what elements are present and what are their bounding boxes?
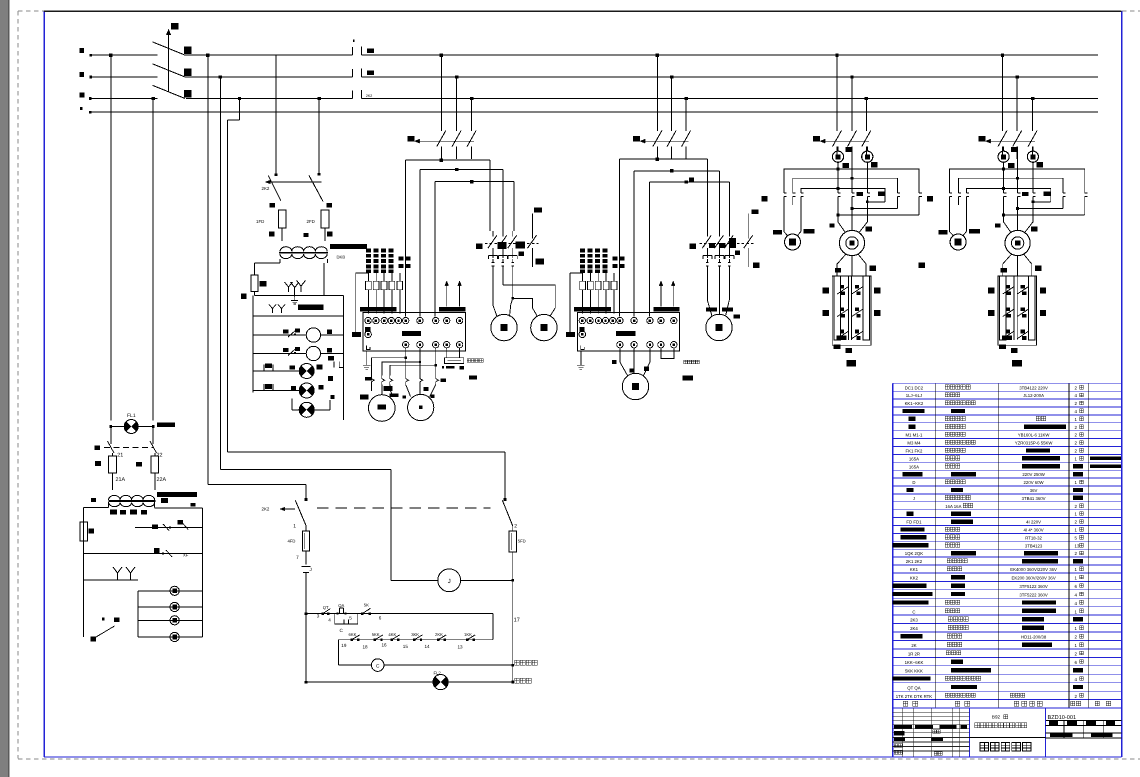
- svg-text:2K3: 2K3: [910, 618, 918, 623]
- meter box row1: [253, 305, 343, 317]
- contact QT: [322, 605, 332, 623]
- switch 21-22 dashed link: [95, 427, 163, 459]
- svg-text:13: 13: [458, 645, 464, 650]
- svg-text:1FD: 1FD: [256, 219, 264, 224]
- svg-text:QT: QT: [323, 605, 329, 610]
- fuse 22A: [136, 453, 166, 490]
- lamp FL1: [109, 413, 175, 434]
- svg-text:5KK: 5KK: [372, 632, 380, 637]
- switch 3K1: [262, 500, 307, 529]
- c3 hoist contactor QC: [476, 208, 544, 285]
- svg-text:2KK: 2KK: [435, 632, 443, 637]
- svg-text:1QK 2QK: 1QK 2QK: [905, 551, 924, 556]
- motor feeder drop c6: [1001, 53, 1035, 131]
- contact 3KK: [403, 632, 423, 649]
- contact 6KK: [341, 632, 359, 648]
- switch 3K2: [502, 500, 517, 529]
- svg-text:6: 6: [379, 616, 382, 621]
- c4 jumper loop: [661, 348, 674, 359]
- panel row xf: [84, 548, 203, 558]
- motor M5: [622, 373, 648, 399]
- c3 motor wire labels: [360, 377, 446, 400]
- label zhishideng: [515, 678, 532, 683]
- c4 crossover w1: [620, 158, 708, 317]
- rung2 wire: [338, 639, 493, 641]
- c3 brake arrows: [445, 281, 462, 307]
- circuit breaker QC6: [979, 131, 1038, 160]
- svg-text:3TB4123: 3TB4123: [1025, 543, 1043, 548]
- transformer TC secondary: [91, 498, 196, 507]
- transformer DKB primary: [280, 244, 367, 251]
- transformer TC primary: [109, 492, 197, 500]
- svg-text:B92: B92: [992, 715, 1001, 720]
- svg-text:4: 4: [328, 618, 331, 623]
- feeder wire control c: [228, 97, 242, 452]
- c3 brake box: [442, 348, 483, 380]
- svg-text:D: D: [912, 480, 915, 485]
- bus L1: [89, 40, 1098, 57]
- circuit breaker QC4: [633, 131, 691, 160]
- svg-text:220V 60W: 220V 60W: [1024, 480, 1045, 485]
- ctl rail a: [228, 452, 507, 501]
- terminal circles: [170, 586, 179, 641]
- svg-text:FD FD1: FD FD1: [906, 520, 922, 525]
- svg-text:DKB: DKB: [337, 255, 346, 260]
- coil C: [338, 659, 514, 672]
- panel antenna symbols: [84, 567, 138, 580]
- svg-text:C: C: [376, 663, 380, 669]
- svg-text:5K: 5K: [364, 603, 369, 608]
- relay J coil: [391, 569, 514, 592]
- contact 5KK: [363, 632, 383, 649]
- svg-text:J: J: [448, 578, 451, 585]
- switch 2K2 blade a: [268, 176, 281, 201]
- svg-text:EK4000 360V/220V 36V: EK4000 360V/220V 36V: [1010, 567, 1057, 572]
- motor M6: [706, 314, 732, 340]
- fuse 21A: [95, 453, 125, 490]
- c3 terminal block TB1: [352, 313, 466, 370]
- motor feeder drop c3: [440, 53, 474, 131]
- travel drive 2 (QC6/M8/R2): [919, 147, 1088, 367]
- fuse 3FD: [251, 275, 267, 296]
- transformer DKB core: [279, 253, 345, 260]
- c3 crossover w3: [435, 159, 514, 317]
- svg-text:5: 5: [349, 615, 352, 620]
- switch 2K2 bar: [262, 180, 322, 191]
- contact 4KK: [382, 632, 400, 647]
- svg-text:165A: 165A: [909, 464, 919, 469]
- c3 motor jogs: [493, 285, 555, 317]
- svg-text:2K2: 2K2: [262, 507, 270, 512]
- svg-text:C: C: [912, 609, 915, 614]
- svg-text:3TF5122 360V: 3TF5122 360V: [1019, 584, 1048, 589]
- svg-text:EK200 360V/260V 36V: EK200 360V/260V 36V: [1011, 575, 1055, 580]
- svg-text:3KK: 3KK: [411, 632, 419, 637]
- bus L2: [90, 69, 1099, 79]
- svg-text:4FD: 4FD: [288, 539, 296, 544]
- rung2 drop: [337, 640, 339, 665]
- switch 2K2 blade b: [309, 175, 323, 201]
- table grid horizontals: [893, 383, 1122, 708]
- svg-text:7: 7: [296, 555, 299, 561]
- ctl rail b: [220, 469, 391, 580]
- motor M1: [369, 395, 396, 422]
- feeder wire to lighting L1: [109, 53, 112, 420]
- drawing number: [1046, 715, 1122, 738]
- c4 controller fuse panel: [570, 249, 680, 333]
- rung1 drop: [492, 614, 494, 640]
- svg-text:1KK: 1KK: [464, 632, 472, 637]
- svg-text:5KK KKK: 5KK KKK: [905, 668, 923, 673]
- label 17: [514, 618, 520, 624]
- circuit breaker QC3: [408, 131, 477, 160]
- bus N: [89, 111, 1098, 114]
- c3 crossover w2: [420, 159, 503, 317]
- bus phase labels: [80, 48, 85, 110]
- motor M3: [491, 314, 517, 340]
- svg-text:HD11-200/38: HD11-200/38: [1021, 635, 1047, 640]
- svg-text:4KK: 4KK: [388, 632, 396, 637]
- svg-text:1KK~6KK: 1KK~6KK: [905, 660, 924, 665]
- svg-text:DC1 DC2: DC1 DC2: [905, 385, 924, 390]
- secondary left lead: [255, 259, 281, 275]
- lighting panel left rail: [84, 508, 109, 638]
- fuse on left rail: [80, 522, 94, 541]
- rung1 wire: [305, 612, 493, 682]
- motor M6 wires: [706, 285, 740, 318]
- scrollbar gutter: [0, 0, 10, 777]
- svg-text:16A 16A: 16A 16A: [945, 504, 961, 509]
- motor feeder drop c5: [835, 53, 868, 131]
- lamp row3: [292, 395, 335, 417]
- svg-text:6KK: 6KK: [349, 632, 357, 637]
- table rows content: [893, 385, 1121, 699]
- c4 brake label: [683, 360, 700, 381]
- svg-text:36V: 36V: [1030, 488, 1038, 493]
- title separator: [969, 737, 1045, 739]
- svg-text:18: 18: [363, 644, 369, 649]
- feeder to transformer 2K2 a: [275, 55, 278, 176]
- fuse 4FD: [288, 526, 310, 565]
- revision grid: [893, 708, 970, 757]
- motor M5 wires: [612, 348, 650, 376]
- c3 crossover w1: [406, 159, 491, 317]
- title main name: [980, 742, 1031, 751]
- svg-text:M3 M4: M3 M4: [907, 441, 921, 446]
- feeder wire to lighting L3: [152, 97, 155, 421]
- svg-text:2: 2: [514, 524, 517, 530]
- ctl dashed tie: [317, 507, 491, 509]
- svg-text:KK1: KK1: [910, 567, 919, 572]
- svg-text:2K1 2K2: 2K1 2K2: [906, 559, 923, 564]
- c4 crossover w3: [650, 159, 730, 317]
- svg-text:3TB4122 220V: 3TB4122 220V: [1019, 385, 1048, 390]
- fuse 5FD: [509, 526, 526, 682]
- feeder to transformer 2K2 b: [317, 97, 320, 176]
- bottom-left switch: [84, 580, 138, 642]
- c3 motor jog wires: [371, 348, 438, 397]
- svg-text:KK1~KK2: KK1~KK2: [905, 401, 924, 406]
- svg-text:QT QA: QT QA: [907, 685, 920, 690]
- svg-text:4I 4* 360V: 4I 4* 360V: [1024, 528, 1044, 533]
- svg-text:RT18-32: RT18-32: [1025, 535, 1042, 540]
- label dangubchuqi: [515, 660, 538, 665]
- svg-text:21A: 21A: [116, 477, 126, 483]
- feeder wire control a: [206, 53, 209, 484]
- motor feeder drop c4: [656, 53, 688, 131]
- fuse 1FD: [256, 201, 286, 241]
- c4 brake arrows: [659, 281, 675, 307]
- svg-text:22A: 22A: [157, 477, 167, 483]
- svg-text:17: 17: [514, 618, 520, 624]
- svg-text:YB160L-6 11KW: YB160L-6 11KW: [1018, 433, 1051, 438]
- contact 2KK: [425, 632, 447, 649]
- svg-text:2K: 2K: [911, 643, 916, 648]
- contact 1KK: [458, 632, 476, 649]
- meter V1: [253, 328, 343, 342]
- svg-text:3TF5222 360V: 3TF5222 360V: [1019, 592, 1048, 597]
- meter V2: [253, 346, 343, 360]
- svg-text:165A: 165A: [909, 456, 919, 461]
- title model text: [975, 715, 1027, 728]
- motor M2: [408, 394, 434, 420]
- circuit breaker QC5: [813, 131, 871, 160]
- svg-text:1TK 2TK DTK RTK: 1TK 2TK DTK RTK: [896, 694, 933, 699]
- c4 terminal block TB2: [566, 313, 680, 370]
- svg-text:J: J: [310, 567, 312, 572]
- svg-text:4I 220V: 4I 220V: [1026, 520, 1041, 525]
- terminal rows box: [138, 591, 203, 637]
- cluster2 stray sq: [241, 294, 246, 299]
- svg-text:1R 2R: 1R 2R: [908, 652, 920, 657]
- fuse 2FD: [307, 202, 333, 242]
- contact 5K: [361, 603, 382, 621]
- motor M4: [531, 314, 557, 340]
- c4 hoist contactor: [690, 210, 760, 285]
- svg-text:3TB41 360V: 3TB41 360V: [1022, 496, 1046, 501]
- svg-text:3: 3: [317, 614, 320, 619]
- lamp row1: [253, 356, 343, 378]
- ground sym: [291, 297, 298, 304]
- svg-text:1LJ~6LJ: 1LJ~6LJ: [906, 393, 922, 398]
- bus L3: [89, 90, 1098, 100]
- secondary right lead: [324, 259, 328, 296]
- table grid verticals: [893, 383, 1089, 757]
- svg-text:YZR0315P-6 55KW: YZR0315P-6 55KW: [1015, 441, 1054, 446]
- svg-text:QA: QA: [338, 603, 344, 608]
- rectifier taps: [109, 502, 155, 515]
- contact J: [302, 567, 312, 614]
- svg-text:13: 13: [1075, 543, 1080, 548]
- svg-text:220V 250W: 220V 250W: [1022, 472, 1045, 477]
- travel drive 1 (QC5/M7/R1): [753, 147, 922, 367]
- c3 controller fuse panel: [356, 249, 466, 333]
- lamp row2: [253, 376, 333, 398]
- transformer TC core: [109, 500, 156, 502]
- svg-text:2K2: 2K2: [366, 94, 372, 98]
- transformer DKB secondary: [280, 233, 327, 259]
- svg-text:KK2: KK2: [910, 575, 919, 580]
- feeder wire control b: [219, 75, 222, 469]
- svg-text:16: 16: [382, 643, 388, 648]
- svg-text:2K4: 2K4: [910, 626, 918, 631]
- main disconnect switch QS: [153, 23, 192, 99]
- title block frame: [893, 708, 1122, 757]
- lamp FL2 row: [305, 671, 514, 690]
- lighting panel right rail: [155, 508, 203, 637]
- svg-text:5FD: 5FD: [518, 539, 526, 544]
- panel antenna trio: [285, 281, 306, 297]
- svg-text:JL12-200A: JL12-200A: [1023, 393, 1044, 398]
- meter box top: [253, 296, 343, 421]
- ctl rail c: [208, 484, 308, 500]
- c4 crossover w2: [634, 159, 719, 317]
- svg-text:14: 14: [425, 644, 431, 649]
- svg-text:2FD: 2FD: [307, 219, 315, 224]
- contact C parallel: [335, 614, 358, 633]
- svg-text:2K2: 2K2: [262, 186, 270, 191]
- svg-text:FL1: FL1: [127, 413, 136, 419]
- svg-text:J: J: [913, 496, 915, 501]
- svg-text:FK1 FK2: FK1 FK2: [905, 449, 923, 454]
- svg-text:XF: XF: [183, 553, 189, 558]
- svg-text:21: 21: [117, 453, 123, 459]
- svg-text:19: 19: [341, 643, 347, 648]
- contact QA: [337, 603, 347, 615]
- svg-text:15: 15: [403, 644, 409, 649]
- table header row: [903, 701, 1111, 706]
- panel row xc: [135, 520, 203, 531]
- svg-text:M1 M1-1: M1 M1-1: [905, 433, 923, 438]
- svg-text:1: 1: [293, 524, 296, 530]
